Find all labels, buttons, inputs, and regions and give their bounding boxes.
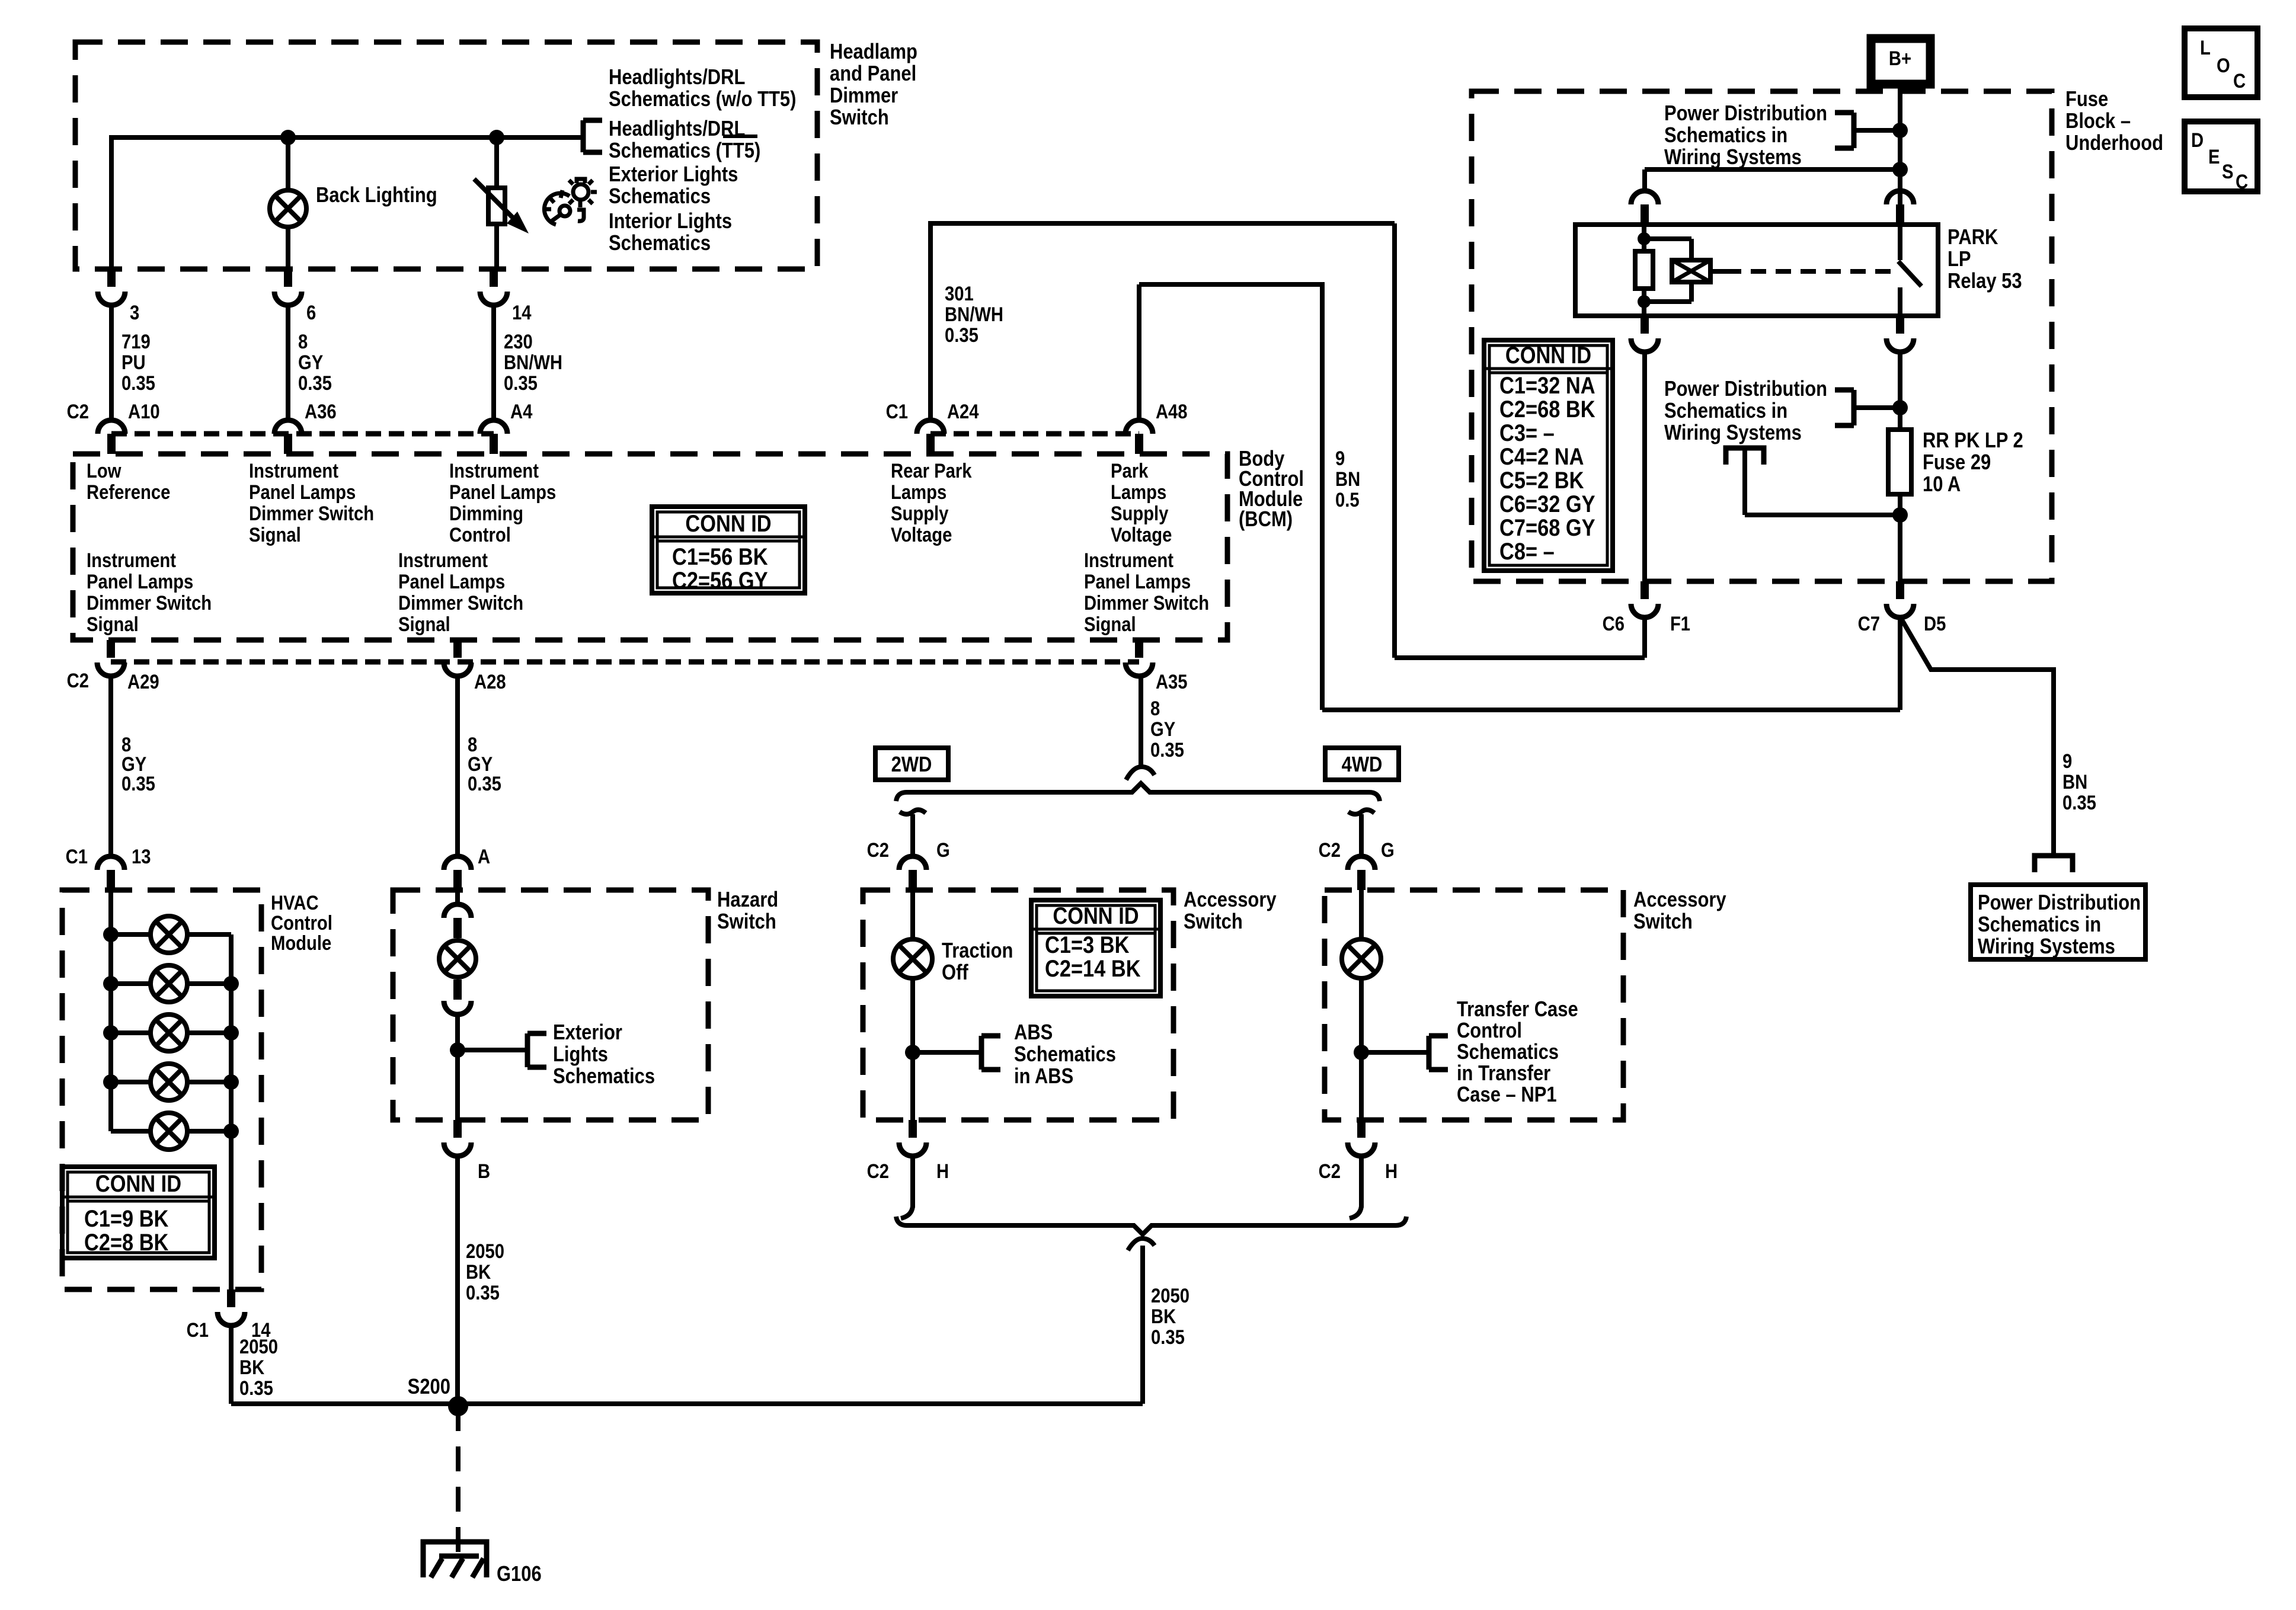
svg-text:BN: BN (1335, 468, 1360, 491)
conn id table (HVAC) (62, 1167, 215, 1258)
svg-text:Dimmer Switch: Dimmer Switch (1084, 591, 1209, 614)
break: merged return squiggle (1128, 1238, 1155, 1250)
svg-text:14: 14 (512, 301, 532, 324)
svg-text:A4: A4 (510, 400, 533, 423)
svg-text:G: G (936, 838, 950, 862)
svg-text:C2=68 BK: C2=68 BK (1499, 396, 1595, 422)
svg-text:0.35: 0.35 (1151, 1326, 1185, 1349)
svg-text:Switch: Switch (717, 910, 776, 934)
svg-text:0.35: 0.35 (1150, 738, 1184, 761)
svg-text:C1=56 BK: C1=56 BK (672, 543, 768, 570)
svg-text:Back Lighting: Back Lighting (316, 184, 437, 207)
connector A28 from BCM bottom (453, 640, 462, 658)
wire: power distribution feed drop (1742, 448, 1747, 515)
svg-text:Control: Control (449, 523, 511, 546)
lamp: HVAC backlight 1 (111, 932, 151, 937)
svg-text:2050: 2050 (239, 1335, 278, 1358)
connector: relay coil terminal bottom (1641, 316, 1649, 334)
svg-text:6: 6 (306, 301, 316, 324)
svg-text:Instrument: Instrument (1084, 549, 1173, 572)
lamp: hazard switch backlight (439, 940, 476, 977)
connector: relay switch terminal top (1886, 191, 1914, 204)
wire: back lighting to pin 6 (286, 227, 290, 269)
wire: coil feed horizontal (1645, 167, 1900, 172)
connector C2/G into accessory switch (2WD) (899, 856, 926, 870)
svg-text:Lamps: Lamps (1111, 481, 1166, 504)
node: relay coil junction bottom (1638, 295, 1651, 308)
connector: hazard bulb socket bottom (453, 980, 462, 1000)
node: ABS tap junction (905, 1045, 920, 1060)
DESC legend box (2185, 121, 2257, 191)
rheostat: panel dimmer variable resistor (488, 188, 505, 224)
node: junction at relay coil feed (1892, 162, 1908, 177)
lamp: HVAC backlight 3 (111, 1030, 151, 1035)
svg-text:Dimmer Switch: Dimmer Switch (87, 591, 212, 614)
svg-text:B+: B+ (1889, 47, 1911, 70)
svg-text:C2: C2 (867, 1160, 889, 1183)
wire: relay switch lower lead (1898, 287, 1902, 316)
wire: A35 down to split (1139, 676, 1143, 768)
wire: coil actuation dashed link (1710, 269, 1726, 274)
svg-text:Panel Lamps: Panel Lamps (1084, 570, 1191, 593)
icon: instrument cluster gauge with bulb (544, 179, 597, 225)
wire: 2WD return down (910, 1156, 915, 1208)
svg-text:301: 301 (945, 282, 974, 305)
svg-text:Traction: Traction (942, 939, 1013, 963)
break: right branch hook (1348, 809, 1374, 814)
svg-text:BK: BK (466, 1260, 491, 1283)
svg-text:CONN ID: CONN ID (1505, 342, 1591, 369)
svg-text:H: H (1385, 1160, 1398, 1183)
wire: merged return down (1140, 1246, 1145, 1404)
svg-text:CONN ID: CONN ID (1053, 902, 1139, 929)
break: A35 wire break squiggle (1126, 767, 1155, 780)
svg-text:C2=56 GY: C2=56 GY (672, 567, 768, 594)
connector C2/H from accessory (4WD) (1357, 1120, 1366, 1138)
svg-text:9: 9 (2062, 750, 2072, 773)
svg-text:Hazard: Hazard (717, 888, 778, 912)
svg-text:0.35: 0.35 (121, 772, 155, 795)
svg-text:A35: A35 (1156, 670, 1188, 693)
body control module box (73, 454, 1227, 640)
svg-text:(BCM): (BCM) (1239, 508, 1293, 532)
svg-text:Fuse: Fuse (2065, 88, 2108, 111)
ground G106 symbol (423, 1542, 487, 1577)
svg-text:Control: Control (1457, 1019, 1522, 1043)
connector A4 into BCM top (480, 420, 507, 434)
wire: right branch to C2/G (1359, 814, 1364, 856)
wire: tap to power distribution bracket (lower) (1854, 405, 1900, 410)
svg-text:RR PK LP 2: RR PK LP 2 (1923, 429, 2023, 453)
svg-text:Lights: Lights (553, 1043, 608, 1067)
wire: 4WD lamp return (1359, 978, 1364, 1120)
wire: HVAC return to S200 (231, 1401, 458, 1406)
svg-text:C3= –: C3= – (1499, 420, 1555, 446)
svg-text:Voltage: Voltage (1111, 523, 1172, 546)
svg-text:Power Distribution: Power Distribution (1978, 891, 2141, 915)
svg-text:A10: A10 (128, 400, 160, 423)
lamp: HVAC backlight 4 (111, 1080, 151, 1084)
svg-text:C6=32 GY: C6=32 GY (1499, 491, 1595, 517)
wire: relay left lead (1642, 225, 1646, 251)
bracket: exterior lights schematics reference (527, 1033, 546, 1067)
wire: rheostat bottom lead to pin 14 (494, 224, 499, 269)
wire: HVAC right rail (229, 934, 234, 1289)
wire: C6/F1 drop (1642, 617, 1647, 658)
node: splice S200 (448, 1396, 468, 1416)
lamp: HVAC backlight 5 (111, 1129, 151, 1134)
svg-text:719: 719 (121, 330, 151, 353)
break: 2WD return hook (901, 1206, 913, 1218)
svg-text:C2: C2 (67, 669, 89, 692)
svg-text:Underhood: Underhood (2065, 132, 2163, 155)
svg-text:D: D (2191, 129, 2204, 152)
svg-text:Signal: Signal (398, 613, 450, 636)
lamp: 4WD indicator (1342, 939, 1381, 978)
goalpost: power distribution feed symbol (1726, 448, 1764, 465)
connector pin 14 of dimmer switch (490, 269, 498, 287)
connector A into hazard switch (444, 856, 471, 870)
svg-text:Schematics (TT5): Schematics (TT5) (609, 139, 760, 163)
svg-text:S200: S200 (408, 1375, 450, 1399)
svg-text:Headlamp: Headlamp (830, 40, 917, 64)
svg-text:C1: C1 (886, 400, 908, 423)
svg-text:D5: D5 (1924, 612, 1946, 635)
node: bus junction at dimmer rheostat (489, 130, 504, 145)
wire: switched output down (1898, 352, 1902, 430)
arrow: rheostat adjustment arrow (474, 179, 517, 222)
svg-text:2WD: 2WD (891, 753, 932, 777)
svg-text:Reference: Reference (87, 481, 170, 504)
wire: tap to power distribution bracket (1854, 128, 1900, 133)
break: left branch hook (900, 809, 926, 814)
svg-text:Power Distribution: Power Distribution (1664, 377, 1827, 401)
bracket: ABS schematics reference (981, 1036, 1000, 1070)
coil: relay coil (boxed X) (1672, 260, 1710, 282)
wire: tap to ABS bracket (913, 1050, 981, 1055)
lamp: HVAC backlight 2 (111, 981, 151, 986)
svg-text:BN: BN (2062, 770, 2087, 793)
node: HVAC left rail junction 4 (103, 1074, 119, 1090)
hazard switch box (393, 890, 708, 1120)
svg-text:LP: LP (1948, 248, 1971, 271)
wire: dimmer switch left drop to pin 3 (109, 135, 114, 269)
wire: 9 BN 0.5 down (1320, 282, 1325, 710)
svg-text:C1: C1 (66, 845, 88, 868)
svg-text:Voltage: Voltage (891, 523, 952, 546)
svg-text:G: G (1381, 838, 1395, 862)
svg-text:and Panel: and Panel (830, 62, 916, 86)
node: hazard tap junction (450, 1042, 465, 1058)
svg-text:F1: F1 (1670, 612, 1690, 635)
wire: rheostat top lead (494, 137, 499, 188)
wire: coil branch top (1644, 236, 1691, 241)
svg-text:Switch: Switch (830, 106, 889, 130)
svg-text:Schematics: Schematics (553, 1065, 655, 1089)
bracket: power distribution reference (upper) (1835, 113, 1854, 148)
svg-text:C7: C7 (1858, 612, 1880, 635)
svg-text:Wiring Systems: Wiring Systems (1664, 421, 1802, 445)
svg-text:Schematics in: Schematics in (1978, 913, 2101, 937)
B+ terminal box (1871, 39, 1930, 84)
svg-text:0.35: 0.35 (2062, 791, 2096, 814)
svg-text:Exterior: Exterior (553, 1021, 622, 1045)
accessory switch box (2WD) (863, 890, 1173, 1120)
wire: relay left lead lower (1642, 289, 1646, 316)
wire: HVAC left rail (108, 890, 113, 1131)
connector B from hazard bottom (453, 1120, 462, 1138)
PARK LP relay 53 box (1575, 225, 1938, 316)
connector A29 from BCM bottom (107, 640, 115, 658)
LOC legend box (2185, 28, 2257, 97)
wire: 4WD return down (1359, 1156, 1364, 1208)
svg-text:Schematics: Schematics (1457, 1041, 1559, 1064)
svg-text:C2: C2 (1319, 1160, 1341, 1183)
svg-text:0.5: 0.5 (1335, 488, 1360, 511)
svg-text:C2: C2 (867, 838, 889, 862)
node: HVAC right rail junction 5 (223, 1124, 239, 1139)
conn id table (BCM) (652, 507, 805, 593)
connector A10 into BCM top (98, 420, 125, 434)
svg-text:Panel Lamps: Panel Lamps (398, 570, 505, 593)
svg-text:A36: A36 (305, 400, 337, 423)
svg-text:Dimming: Dimming (449, 502, 523, 525)
svg-text:Headlights/DRL: Headlights/DRL (609, 66, 745, 89)
wire: 4WD lamp feed (1359, 890, 1364, 939)
bracket: power distribution reference (lower) (1835, 390, 1854, 425)
svg-text:O: O (2217, 54, 2230, 77)
wire: A28 to hazard switch (455, 676, 460, 856)
conn id table (fuse block) (1484, 340, 1613, 571)
svg-text:BN/WH: BN/WH (945, 303, 1003, 326)
svg-text:Park: Park (1111, 459, 1149, 482)
resistor: relay suppression resistor (1635, 251, 1653, 289)
connector A48 into BCM top (1125, 420, 1153, 434)
dotted connector line C1 (A24-A48) (930, 431, 1139, 437)
wire: hazard lamp feed (455, 890, 460, 905)
switch blade: relay contact (1898, 261, 1921, 286)
svg-text:A48: A48 (1156, 400, 1188, 423)
svg-text:8: 8 (1150, 697, 1160, 720)
wire: HVAC return down (229, 1326, 234, 1404)
wire: to C6/F1 connector (1395, 655, 1645, 660)
connector C2/G into accessory switch (4WD) (1348, 856, 1375, 870)
svg-text:Rear Park: Rear Park (891, 459, 972, 482)
connector C6/F1 fuse block bottom (1641, 581, 1649, 599)
brace: 2WD/4WD split (opens down) (896, 783, 1380, 801)
wire: relay switch upper lead (1898, 225, 1902, 260)
dotted connector line C2 (A10-A4) (111, 431, 494, 437)
svg-text:0.35: 0.35 (239, 1377, 273, 1400)
lamp: back lighting (270, 190, 306, 227)
svg-text:E: E (2208, 145, 2220, 168)
wire: C7/D5 vertical (1898, 618, 1902, 710)
svg-text:9: 9 (1335, 447, 1345, 470)
fuse: RR PK LP 2 Fuse 29 10A (1888, 430, 1911, 494)
svg-text:Wiring Systems: Wiring Systems (1978, 935, 2115, 959)
wire: B+ feed down to relay (1898, 84, 1902, 225)
svg-text:Instrument: Instrument (87, 549, 176, 572)
svg-text:0.35: 0.35 (298, 372, 332, 395)
svg-text:0.35: 0.35 (504, 372, 538, 395)
svg-text:Schematics in: Schematics in (1664, 399, 1787, 423)
svg-text:in ABS: in ABS (1014, 1065, 1073, 1089)
connector C1/14 from HVAC bottom (227, 1289, 235, 1307)
svg-text:C4=2 NA: C4=2 NA (1499, 443, 1584, 470)
svg-text:2050: 2050 (466, 1240, 504, 1263)
svg-text:Exterior Lights: Exterior Lights (609, 163, 738, 187)
wire: down to C6 route (1392, 223, 1397, 658)
wire: A48 horizontal (1139, 282, 1322, 287)
svg-text:GY: GY (1150, 718, 1175, 741)
svg-text:Supply: Supply (891, 502, 949, 525)
svg-text:CONN ID: CONN ID (95, 1170, 181, 1197)
svg-text:Signal: Signal (1084, 613, 1136, 636)
svg-text:Block –: Block – (2065, 110, 2131, 133)
svg-text:A24: A24 (947, 400, 979, 423)
node: HVAC left rail junction 2 (103, 976, 119, 991)
svg-text:CONN ID: CONN ID (685, 510, 771, 537)
connector C1/13 into HVAC (97, 856, 124, 870)
connector A36 into BCM top (274, 420, 302, 434)
svg-text:H: H (936, 1160, 949, 1183)
svg-text:Switch: Switch (1184, 910, 1243, 934)
svg-text:Lamps: Lamps (891, 481, 946, 504)
svg-text:Schematics in: Schematics in (1664, 124, 1787, 148)
svg-text:B: B (478, 1160, 490, 1183)
wire: power distribution feed horizontal (1745, 513, 1900, 517)
wire: circuit 8 down to BCM (286, 306, 290, 421)
svg-text:3: 3 (130, 301, 139, 324)
svg-text:BK: BK (239, 1356, 264, 1379)
svg-text:Low: Low (87, 459, 121, 482)
svg-text:in Transfer: in Transfer (1457, 1062, 1550, 1086)
svg-text:Instrument: Instrument (449, 459, 539, 482)
wire: fuse output down (1898, 494, 1902, 581)
wire: circuit 719 down to BCM (109, 306, 114, 421)
svg-text:13: 13 (132, 845, 151, 868)
svg-text:Instrument: Instrument (249, 459, 338, 482)
svg-text:Transfer Case: Transfer Case (1457, 998, 1578, 1022)
svg-text:ABS: ABS (1014, 1021, 1053, 1045)
headlamp and panel dimmer switch box (75, 42, 817, 269)
svg-text:Dimmer Switch: Dimmer Switch (249, 502, 374, 525)
svg-text:0.35: 0.35 (945, 324, 978, 347)
wire: coil branch bottom (1689, 282, 1694, 302)
connector C7/D5 fuse block bottom (1896, 581, 1904, 599)
power distribution schematics box (bottom right) (1971, 885, 2145, 959)
wire: left branch to C2/G (910, 814, 915, 856)
dotted connector line bottom (A29-A35) (111, 660, 1139, 665)
svg-text:Signal: Signal (249, 523, 301, 546)
svg-text:C1: C1 (187, 1318, 209, 1342)
svg-text:C2: C2 (67, 400, 89, 423)
label: 2WD box (875, 748, 948, 780)
accessory switch box (4WD) (1325, 890, 1623, 1120)
connector A35 from BCM bottom (1135, 640, 1143, 658)
node: HVAC right rail junction 3 (223, 1025, 239, 1041)
svg-text:4WD: 4WD (1342, 753, 1383, 777)
svg-text:Panel Lamps: Panel Lamps (249, 481, 356, 504)
node: HVAC right rail junction 4 (223, 1074, 239, 1090)
svg-text:Fuse 29: Fuse 29 (1923, 451, 1991, 475)
svg-text:Panel Lamps: Panel Lamps (87, 570, 193, 593)
svg-text:C8= –: C8= – (1499, 538, 1555, 565)
wire: tap to transfer case bracket (1361, 1050, 1429, 1055)
svg-text:Off: Off (942, 961, 968, 985)
node: HVAC left rail junction 3 (103, 1025, 119, 1041)
svg-text:C: C (2236, 170, 2248, 193)
svg-text:A28: A28 (474, 670, 506, 693)
svg-text:C1=32 NA: C1=32 NA (1499, 372, 1595, 399)
connector pin 3 of dimmer switch (107, 269, 116, 287)
svg-text:C1=9 BK: C1=9 BK (84, 1205, 168, 1232)
svg-text:Schematics: Schematics (609, 232, 711, 255)
node: relay coil junction top (1638, 232, 1651, 245)
svg-text:Relay 53: Relay 53 (1948, 270, 2022, 293)
svg-text:Interior Lights: Interior Lights (609, 210, 732, 233)
svg-text:10 A: 10 A (1923, 473, 1961, 497)
wire: A24 up (928, 223, 933, 421)
svg-text:Supply: Supply (1111, 502, 1169, 525)
wire: circuit 230 down to BCM (491, 306, 496, 421)
svg-text:A29: A29 (127, 670, 159, 693)
svg-text:C7=68 GY: C7=68 GY (1499, 514, 1595, 541)
wire: hazard lamp return (455, 1014, 460, 1120)
wire: tap to exterior lights bracket (458, 1048, 527, 1052)
svg-text:Dimmer Switch: Dimmer Switch (398, 591, 523, 614)
svg-text:BN/WH: BN/WH (504, 351, 562, 374)
node: junction at power distribution tap (1892, 123, 1908, 138)
svg-text:C2: C2 (1319, 838, 1341, 862)
svg-text:Wiring Systems: Wiring Systems (1664, 146, 1802, 169)
wire: S200 to ground dashed (456, 1406, 461, 1555)
svg-text:Instrument: Instrument (398, 549, 488, 572)
svg-text:0.35: 0.35 (468, 772, 501, 795)
node: HVAC left rail junction 1 (103, 927, 119, 942)
connector: relay coil terminal top (1631, 191, 1658, 204)
svg-text:Switch: Switch (1633, 910, 1693, 934)
svg-text:Module: Module (271, 932, 331, 955)
wire: back lighting drop (286, 137, 290, 190)
conn id table (accessory switch) (1031, 900, 1160, 996)
svg-text:S: S (2222, 160, 2233, 183)
svg-text:C6: C6 (1603, 612, 1625, 635)
connector pin 6 of dimmer switch (284, 269, 292, 287)
wire: hazard return down to S200 (455, 1156, 460, 1404)
svg-text:Accessory: Accessory (1633, 888, 1726, 912)
HVAC control module box (62, 890, 261, 1289)
svg-text:Case – NP1: Case – NP1 (1457, 1083, 1557, 1107)
svg-text:Signal: Signal (87, 613, 139, 636)
node: transfer case tap junction (1354, 1045, 1369, 1060)
svg-text:Panel Lamps: Panel Lamps (449, 481, 556, 504)
wire: traction off lamp return (910, 978, 915, 1120)
connector C2/H from accessory (2WD) (909, 1120, 917, 1138)
label: 4WD box (1325, 748, 1399, 780)
svg-text:C2=8 BK: C2=8 BK (84, 1229, 168, 1256)
wire: coil feed drop (1642, 169, 1647, 192)
svg-text:C2=14 BK: C2=14 BK (1045, 955, 1141, 982)
svg-text:PARK: PARK (1948, 226, 1998, 249)
bracket: headlights/DRL schematics (TT5) reference (583, 120, 602, 152)
svg-text:0.35: 0.35 (121, 372, 155, 395)
svg-text:Power Distribution: Power Distribution (1664, 102, 1827, 126)
svg-text:Dimmer: Dimmer (830, 84, 898, 108)
svg-text:PU: PU (121, 351, 146, 374)
fuse block underhood box (1472, 91, 2052, 581)
wire: dimmer switch internal bus (111, 135, 582, 140)
